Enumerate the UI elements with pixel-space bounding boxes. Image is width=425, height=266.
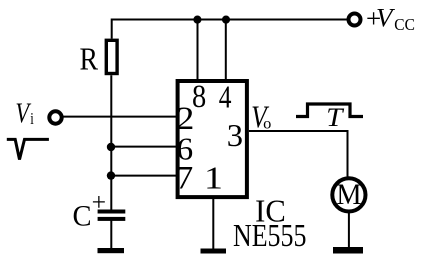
svg-text:C: C xyxy=(73,200,92,233)
svg-text:4: 4 xyxy=(219,80,232,115)
svg-text:2: 2 xyxy=(176,99,194,136)
svg-text:i: i xyxy=(30,111,34,129)
svg-text:3: 3 xyxy=(227,118,243,153)
svg-text:R: R xyxy=(79,43,98,77)
svg-text:CC: CC xyxy=(394,17,415,35)
svg-text:NE555: NE555 xyxy=(233,219,306,254)
svg-text:o: o xyxy=(263,115,271,133)
svg-text:7: 7 xyxy=(176,161,194,196)
svg-text:V: V xyxy=(15,97,31,129)
svg-text:1: 1 xyxy=(204,160,223,196)
svg-text:T: T xyxy=(326,103,345,132)
svg-text:M: M xyxy=(336,179,361,211)
svg-text:+: + xyxy=(92,188,106,217)
